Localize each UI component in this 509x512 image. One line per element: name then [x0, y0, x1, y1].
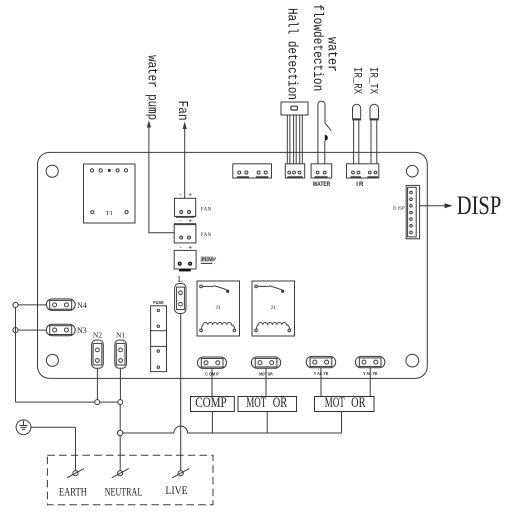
node left rail lower [13, 328, 18, 333]
connector FAN2 [174, 217, 211, 243]
svg-text:FUSE: FUSE [153, 300, 164, 306]
svg-text:N1: N1 [116, 331, 125, 340]
svg-text:+: + [188, 218, 192, 225]
fuse FUSE [151, 300, 167, 372]
svg-text:J1: J1 [271, 305, 276, 311]
connector PUMP [174, 244, 217, 272]
spade terminal MOTOR2-a [306, 356, 336, 375]
spade terminal COMP [197, 357, 226, 376]
connector DISP (7 pin) [393, 185, 420, 238]
wire live from L terminal to switch [180, 314, 182, 471]
svg-text:OR: OR [351, 395, 366, 411]
wire neutral to switch [119, 436, 121, 471]
hall sensor [281, 102, 308, 164]
wire MOTOR1 box down [266, 412, 268, 434]
dashed mains box [47, 455, 213, 504]
IR LED 2 (IR_TX) [370, 104, 379, 164]
svg-text:FAN: FAN [201, 208, 212, 213]
terminal N1 [115, 331, 127, 369]
svg-text:T1: T1 [106, 210, 113, 217]
wire MOTOR2 box down [341, 412, 343, 434]
mounting hole bottom-right [406, 354, 419, 367]
wire COMP spade to box [211, 368, 213, 396]
mounting hole top-right [407, 165, 419, 177]
svg-text:flowdetection: flowdetection [309, 4, 324, 91]
svg-text:N2: N2 [93, 331, 102, 340]
svg-text:OR: OR [273, 395, 288, 411]
svg-text:N3: N3 [77, 326, 87, 335]
wire from N3 to left rail [18, 329, 46, 331]
svg-text:water: water [324, 37, 339, 72]
wire DISP arrow [420, 203, 453, 208]
box MOTOR2 [315, 395, 375, 412]
svg-text:+: + [188, 244, 192, 251]
switch NEUTRAL [112, 469, 129, 478]
switch EARTH [67, 469, 84, 478]
spade terminal MOTOR2-b [355, 356, 385, 375]
svg-text:water pump: water pump [143, 55, 158, 120]
wire water pump arrow [147, 120, 174, 233]
mounting hole bottom-left [46, 354, 58, 366]
terminal N4 [46, 299, 86, 311]
svg-text:LIVE: LIVE [165, 483, 187, 497]
node N1 junction [118, 400, 123, 405]
svg-text:+: + [188, 192, 192, 199]
svg-text:MOT: MOT [325, 395, 345, 411]
wire N1 down [119, 368, 121, 400]
wire bottom horizontal rail to N1/N2 [16, 401, 121, 403]
terminal L [175, 274, 186, 314]
svg-text:Hall detection: Hall detection [284, 8, 299, 100]
box MOTOR1 [238, 395, 297, 412]
node neutral-return junction [118, 430, 123, 435]
relay J1 (left) [197, 281, 240, 336]
connector WATER [311, 164, 332, 188]
terminal N2 [92, 331, 104, 369]
svg-text:NEUTRAL: NEUTRAL [105, 485, 143, 499]
board outline [38, 152, 428, 378]
svg-text:-: - [179, 192, 181, 199]
wire left rail vertical [15, 308, 17, 403]
terminal N3 [46, 324, 86, 336]
transformer T1 [84, 164, 136, 223]
svg-text:COMP: COMP [195, 395, 227, 411]
connector HALL (3 pin) [285, 164, 304, 178]
svg-text:-: - [179, 217, 181, 224]
switch LIVE [172, 469, 189, 478]
relay J1 (right) [252, 281, 295, 336]
svg-text:IR: IR [356, 182, 364, 188]
wire bottom return rail with hop over live [123, 426, 342, 433]
box COMP [191, 395, 235, 412]
wire earth horizontal [31, 426, 76, 428]
wire earth down to switch [75, 427, 77, 470]
wire MOTOR1 spade to box [265, 368, 267, 396]
wire COMP box down [211, 412, 213, 434]
wire MOTOR2-a spade to box [320, 368, 322, 397]
svg-text:L: L [178, 274, 183, 284]
wire from N4 to left rail [18, 304, 46, 306]
node N2 junction [95, 400, 100, 405]
node left rail upper [13, 302, 18, 307]
mounting hole top-left [46, 165, 58, 177]
svg-text:PUMP: PUMP [201, 257, 217, 263]
svg-text:WATER: WATER [313, 182, 331, 188]
ground symbol [16, 420, 31, 435]
IR LED 1 (IR_RX) [352, 104, 361, 164]
svg-text:MOT: MOT [246, 395, 266, 411]
svg-text:D ISP: D ISP [393, 205, 405, 210]
svg-text:IR_TX: IR_TX [367, 67, 379, 94]
wire N2 down [96, 368, 98, 400]
svg-text:FAN: FAN [201, 233, 212, 238]
svg-text:Fan: Fan [174, 101, 189, 121]
svg-text:N4: N4 [77, 301, 87, 310]
svg-text:EARTH: EARTH [59, 485, 87, 499]
svg-text:IR_RX: IR_RX [350, 67, 362, 94]
connector FAN1 [175, 192, 212, 217]
wire Fan arrow [183, 122, 187, 199]
spade terminal MOTOR1 [251, 357, 280, 376]
connector J-A (4 pin) [233, 164, 272, 178]
svg-text:DISP: DISP [457, 192, 501, 221]
wire MOTOR2-b spade to box [369, 368, 371, 397]
water flow sensor [318, 101, 331, 164]
svg-text:-: - [179, 244, 181, 251]
wire neutral down [119, 405, 121, 431]
connector IR [347, 164, 379, 188]
svg-text:J1: J1 [216, 305, 221, 311]
